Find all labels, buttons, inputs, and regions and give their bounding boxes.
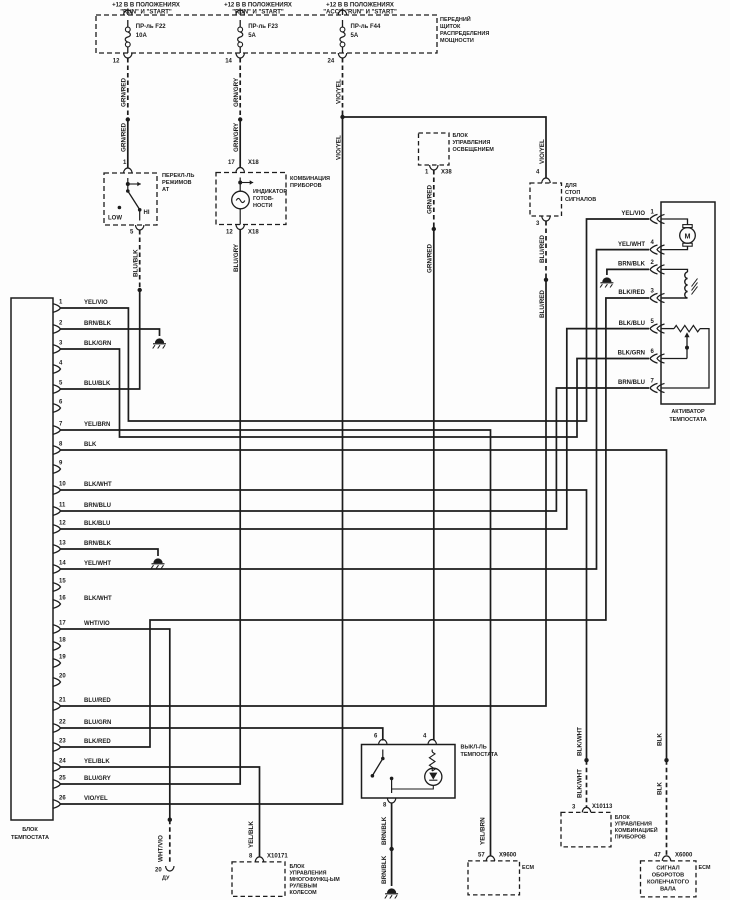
svg-text:УПРАВЛЕНИЯ: УПРАВЛЕНИЯ <box>615 822 652 828</box>
svg-text:+12 В В ПОЛОЖЕНИЯХ: +12 В В ПОЛОЖЕНИЯХ <box>112 3 180 9</box>
svg-text:17: 17 <box>228 160 235 166</box>
svg-text:X10113: X10113 <box>592 804 613 810</box>
svg-text:GRN/GRY: GRN/GRY <box>233 122 240 152</box>
svg-text:10A: 10A <box>136 33 148 39</box>
wire module pin 12 BLK/BLU to actuator pin 5 <box>61 329 650 529</box>
splice BLK/WHT <box>584 758 588 762</box>
splice BLU/RED <box>544 278 548 282</box>
svg-text:КОЛЕСОМ: КОЛЕСОМ <box>290 890 318 896</box>
svg-text:КОЛЕНЧАТОГО: КОЛЕНЧАТОГО <box>647 880 690 886</box>
wire module pin 8 BLK to splice <box>61 450 667 760</box>
svg-text:ДЛЯ: ДЛЯ <box>565 183 577 189</box>
ECM box X9600 <box>486 856 494 861</box>
svg-text:BLK/WHT: BLK/WHT <box>577 727 584 756</box>
svg-text:BRN/BLK: BRN/BLK <box>618 262 646 268</box>
wire module pin 10 BLK/WHT to splice <box>61 490 587 760</box>
actuator solenoid coil <box>661 269 688 272</box>
svg-text:КОМБИНАЦИЕЙ: КОМБИНАЦИЕЙ <box>615 826 658 834</box>
svg-text:X18: X18 <box>248 160 259 166</box>
svg-text:X18: X18 <box>248 230 259 236</box>
wire GRN/RED splice to AT switch <box>127 120 129 169</box>
wire GRN/RED splice to cruise switch pin 4 <box>433 229 435 741</box>
splice GRN/RED <box>126 117 130 121</box>
svg-text:22: 22 <box>59 720 66 726</box>
fuse F22 <box>127 20 129 27</box>
svg-text:18: 18 <box>59 638 66 644</box>
splice WHT/VIO <box>168 818 172 822</box>
svg-text:+12 В В ПОЛОЖЕНИЯХ: +12 В В ПОЛОЖЕНИЯХ <box>224 3 292 9</box>
svg-text:YEL/VIO: YEL/VIO <box>84 300 108 306</box>
svg-text:YEL/BLK: YEL/BLK <box>84 759 110 765</box>
connector pin 12 X18 <box>236 225 244 230</box>
svg-text:BRN/BLU: BRN/BLU <box>618 380 645 386</box>
svg-text:BLK/GRN: BLK/GRN <box>84 341 111 347</box>
svg-text:X6000: X6000 <box>675 853 693 859</box>
svg-text:10: 10 <box>59 482 66 488</box>
switch illumination LED <box>425 768 442 785</box>
wire BLU/BLK AT switch to splice <box>139 230 141 290</box>
svg-text:BLK/WHT: BLK/WHT <box>84 482 112 488</box>
wire GRN/RED lighting to splice <box>433 170 435 229</box>
svg-text:GRN/RED: GRN/RED <box>427 185 434 214</box>
svg-text:YEL/BLK: YEL/BLK <box>248 821 255 848</box>
svg-text:HI: HI <box>144 210 150 216</box>
svg-text:VIO/YEL: VIO/YEL <box>335 79 342 104</box>
junction VIO/YEL <box>340 115 344 119</box>
svg-text:BRN/BLK: BRN/BLK <box>84 541 112 547</box>
svg-text:БЛОК: БЛОК <box>290 864 306 870</box>
svg-text:GRN/RED: GRN/RED <box>121 78 128 107</box>
splice GRN/RED lighting <box>432 227 436 231</box>
svg-text:АТ: АТ <box>162 187 170 193</box>
svg-text:ECM: ECM <box>522 865 534 871</box>
wire BLU/RED stop box to splice <box>545 221 547 280</box>
splice BLU/BLK <box>138 288 142 292</box>
steering wheel control box X10171 <box>255 857 263 862</box>
wire feed stub F23 <box>239 9 241 16</box>
svg-text:BRN/BLK: BRN/BLK <box>381 855 388 884</box>
svg-text:ВАЛА: ВАЛА <box>660 887 676 893</box>
connector pin 8 cruise switch <box>387 798 395 803</box>
svg-text:НОСТИ: НОСТИ <box>253 203 272 209</box>
wire actuator pin 2 BRN/BLK to ground <box>607 269 649 275</box>
wire BLU/GRY cluster to module pin 25 <box>61 230 241 785</box>
svg-text:ПРИБОРОВ: ПРИБОРОВ <box>615 835 646 841</box>
connector 20 remote <box>166 866 174 871</box>
wire WHT/VIO splice to remote connector 20 <box>169 820 171 863</box>
svg-text:РУЛЕВЫМ: РУЛЕВЫМ <box>290 884 318 890</box>
wire BLU/BLK splice to module pin 5 <box>61 290 140 389</box>
svg-text:26: 26 <box>59 796 66 802</box>
wire GRN/RED fuse F22 to splice <box>127 58 129 120</box>
ECM box X6000 crank signal <box>662 856 670 861</box>
svg-text:WHT/VIO: WHT/VIO <box>84 621 110 627</box>
svg-text:СИГНАЛ: СИГНАЛ <box>656 866 679 872</box>
svg-text:BLK/RED: BLK/RED <box>618 290 645 296</box>
svg-text:VIO/YEL: VIO/YEL <box>335 135 342 160</box>
wire module pin 1 YEL/VIO to actuator pin 1 <box>61 219 650 421</box>
svg-text:47: 47 <box>654 853 661 859</box>
svg-text:BLU/GRY: BLU/GRY <box>84 776 111 782</box>
svg-text:25: 25 <box>59 776 66 782</box>
svg-text:23: 23 <box>59 739 66 745</box>
svg-text:ПРИБОРОВ: ПРИБОРОВ <box>290 183 322 189</box>
actuator potentiometer <box>661 328 674 330</box>
connector pin 24 bottom <box>338 53 346 58</box>
connector pin 12 bottom <box>124 53 132 58</box>
svg-text:BLK/RED: BLK/RED <box>84 739 111 745</box>
svg-text:ПР-ль F22: ПР-ль F22 <box>136 24 166 30</box>
svg-text:ТЕМПОСТАТА: ТЕМПОСТАТА <box>461 752 498 758</box>
svg-text:20: 20 <box>59 674 66 680</box>
cruise control module box <box>11 298 53 820</box>
svg-text:ПЕРЕКЛ-ЛЬ: ПЕРЕКЛ-ЛЬ <box>162 173 194 179</box>
wire GRN/GRY fuse F23 to splice <box>239 58 241 120</box>
svg-text:M: M <box>685 232 691 241</box>
wire feed stub F44 <box>342 9 344 16</box>
ground cruise switch <box>387 888 396 893</box>
splice BLK <box>664 758 668 762</box>
svg-text:BLU/RED: BLU/RED <box>539 290 546 318</box>
svg-text:УПРАВЛЕНИЯ: УПРАВЛЕНИЯ <box>290 871 327 877</box>
wire module pin 2 BRN/BLK to ground <box>61 329 160 336</box>
svg-text:YEL/BRN: YEL/BRN <box>480 817 487 845</box>
svg-text:5A: 5A <box>351 33 359 39</box>
wire BLK splice to ECM X6000 <box>666 760 668 856</box>
wire module pin 11 BRN/BLU to actuator pin 7 <box>61 388 650 511</box>
svg-text:BLK: BLK <box>84 442 97 448</box>
wire feed stub F22 <box>127 9 129 16</box>
svg-text:BLU/BLK: BLU/BLK <box>133 249 140 277</box>
svg-text:+12 В В ПОЛОЖЕНИЯХ: +12 В В ПОЛОЖЕНИЯХ <box>326 3 394 9</box>
wire module pin 22 BLU/GRN to cruise switch pin 6 <box>61 728 383 741</box>
svg-text:GRN/RED: GRN/RED <box>427 244 434 273</box>
svg-text:РАСПРЕДЕЛЕНИЯ: РАСПРЕДЕЛЕНИЯ <box>440 31 489 37</box>
connector pin 1 X38 <box>430 165 438 170</box>
wire GRN/GRY splice to cluster <box>239 120 241 169</box>
svg-text:GRN/GRY: GRN/GRY <box>233 77 240 107</box>
svg-text:YEL/VIO: YEL/VIO <box>621 211 645 217</box>
svg-text:ГОТОВ-: ГОТОВ- <box>253 196 274 202</box>
svg-text:BLU/GRN: BLU/GRN <box>84 720 111 726</box>
svg-text:ДУ: ДУ <box>162 876 170 882</box>
switch illumination resistor <box>431 750 433 753</box>
svg-text:YEL/BRN: YEL/BRN <box>84 422 110 428</box>
wire module pin 17 WHT/VIO to splice <box>61 629 170 820</box>
svg-text:24: 24 <box>328 59 335 65</box>
svg-text:ОБОРОТОВ: ОБОРОТОВ <box>652 873 684 879</box>
wire VIO/YEL branch to stop lamp box <box>343 117 547 178</box>
svg-text:20: 20 <box>155 868 162 874</box>
actuator motor M <box>661 219 688 225</box>
svg-text:57: 57 <box>478 853 485 859</box>
ground actuator pin 2 <box>602 277 611 282</box>
wire BLK/WHT splice to cluster control X10113 <box>586 760 588 807</box>
svg-text:РЕЖИМОВ: РЕЖИМОВ <box>162 180 192 186</box>
svg-text:ОСВЕЩЕНИЕМ: ОСВЕЩЕНИЕМ <box>453 147 495 153</box>
svg-text:5A: 5A <box>248 33 256 39</box>
svg-text:БЛОК: БЛОК <box>453 133 469 139</box>
connector pin 5 AT switch <box>136 225 144 230</box>
connector F23 top <box>236 10 244 15</box>
connector pin 3 stop box <box>542 216 550 221</box>
svg-text:15: 15 <box>59 579 66 585</box>
wire VIO/YEL junction to module pin 26 <box>61 117 343 804</box>
svg-text:X10171: X10171 <box>267 854 288 860</box>
wire VIO/YEL fuse F44 to junction <box>342 58 344 117</box>
svg-text:ПЕРЕДНИЙ: ПЕРЕДНИЙ <box>440 15 471 23</box>
svg-text:BLK/BLU: BLK/BLU <box>619 321 645 327</box>
svg-text:LOW: LOW <box>108 216 122 222</box>
connector pin 14 bottom <box>236 53 244 58</box>
splice BRN/BLK <box>389 847 393 851</box>
svg-text:УПРАВЛЕНИЯ: УПРАВЛЕНИЯ <box>453 140 491 146</box>
svg-text:VIO/YEL: VIO/YEL <box>84 796 108 802</box>
svg-text:BRN/BLU: BRN/BLU <box>84 503 111 509</box>
svg-text:X38: X38 <box>441 170 452 176</box>
svg-text:GRN/RED: GRN/RED <box>121 123 128 152</box>
wire module pin 13 BRN/BLK to ground <box>61 549 159 556</box>
svg-text:21: 21 <box>59 698 66 704</box>
svg-text:BLK: BLK <box>657 733 664 746</box>
svg-text:WHT/VIO: WHT/VIO <box>158 835 165 862</box>
svg-text:YEL/WHT: YEL/WHT <box>84 561 111 567</box>
svg-text:11: 11 <box>59 503 66 509</box>
cruise actuator box <box>661 202 715 404</box>
svg-text:ПР-ль F23: ПР-ль F23 <box>248 24 278 30</box>
connector F22 top <box>124 10 132 15</box>
switch contacts AT <box>127 178 129 191</box>
svg-text:СИГНАЛОВ: СИГНАЛОВ <box>565 197 596 203</box>
svg-text:12: 12 <box>226 230 233 236</box>
svg-text:БЛОК: БЛОК <box>615 815 631 821</box>
svg-text:BLK/GRN: BLK/GRN <box>618 351 645 357</box>
svg-text:19: 19 <box>59 655 66 661</box>
wire module pin 7 YEL/BRN to ECM X9600 <box>61 430 491 856</box>
svg-text:БЛОК: БЛОК <box>22 827 38 833</box>
wire module pin 23 BLK/RED to actuator pin 3 <box>61 298 650 747</box>
svg-text:12: 12 <box>59 521 66 527</box>
svg-text:МОЩНОСТИ: МОЩНОСТИ <box>440 38 474 44</box>
wire module pin 24 YEL/BLK to steering wheel X10171 <box>61 767 260 857</box>
svg-text:YEL/WHT: YEL/WHT <box>618 242 645 248</box>
svg-text:BLU/GRY: BLU/GRY <box>233 243 240 272</box>
actuator pot wiper to pin 6 <box>684 332 689 337</box>
svg-text:16: 16 <box>59 596 66 602</box>
svg-text:BLK/BLU: BLK/BLU <box>84 521 110 527</box>
wire module pin 3 BLK/GRN to actuator pin 6 <box>61 349 650 437</box>
svg-text:ВЫКЛ-ЛЬ: ВЫКЛ-ЛЬ <box>461 745 487 751</box>
svg-text:24: 24 <box>59 759 66 765</box>
svg-text:BLK/WHT: BLK/WHT <box>577 769 584 798</box>
svg-text:ТЕМПОСТАТА: ТЕМПОСТАТА <box>11 835 49 841</box>
svg-text:X9600: X9600 <box>499 853 517 859</box>
splice GRN/GRY <box>238 117 242 121</box>
wire BLU/RED splice to module pin 21 <box>61 280 547 706</box>
fuse F44 <box>342 20 344 27</box>
svg-text:17: 17 <box>59 621 66 627</box>
svg-text:14: 14 <box>225 59 232 65</box>
svg-text:МНОГОФУНКЦ-ЫМ: МНОГОФУНКЦ-ЫМ <box>290 877 341 883</box>
svg-text:ПР-ль F44: ПР-ль F44 <box>351 24 381 30</box>
svg-text:13: 13 <box>59 541 66 547</box>
indicator lamp ready <box>239 178 241 192</box>
lighting control module box <box>419 133 450 165</box>
svg-text:12: 12 <box>113 59 120 65</box>
cluster control box X10113 <box>582 807 590 812</box>
svg-text:BLK/WHT: BLK/WHT <box>84 596 112 602</box>
svg-text:BLU/RED: BLU/RED <box>84 698 111 704</box>
svg-text:ECM: ECM <box>699 865 711 871</box>
wire BRN/BLK splice to ground <box>391 849 393 886</box>
svg-text:BLU/RED: BLU/RED <box>539 235 546 263</box>
wire BRN/BLK switch to splice <box>391 803 393 849</box>
svg-text:ИНДИКАТОР: ИНДИКАТОР <box>253 189 287 195</box>
connector F44 top <box>338 10 346 15</box>
front power distribution box <box>96 15 437 53</box>
svg-text:КОМБИНАЦИЯ: КОМБИНАЦИЯ <box>290 176 330 182</box>
svg-text:14: 14 <box>59 561 66 567</box>
svg-text:BLU/BLK: BLU/BLK <box>84 381 111 387</box>
svg-text:ТЕМПОСТАТА: ТЕМПОСТАТА <box>669 417 706 423</box>
wire module pin 14 YEL/WHT to actuator pin 4 <box>61 250 650 569</box>
svg-text:АКТИВАТОР: АКТИВАТОР <box>671 409 705 415</box>
svg-text:ЩИТОК: ЩИТОК <box>440 24 461 30</box>
switch contact cruise <box>382 750 384 759</box>
ground module pin 2 <box>155 338 164 343</box>
svg-text:VIO/YEL: VIO/YEL <box>539 139 546 164</box>
ground module pin 13 <box>153 558 162 563</box>
svg-text:BRN/BLK: BRN/BLK <box>381 816 388 845</box>
svg-text:СТОП: СТОП <box>565 190 580 196</box>
svg-text:BLK: BLK <box>657 782 664 795</box>
fuse F23 <box>239 20 241 27</box>
svg-text:BRN/BLK: BRN/BLK <box>84 321 112 327</box>
